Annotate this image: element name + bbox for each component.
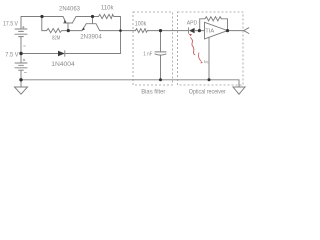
wire diode to riser	[65, 53, 121, 55]
wire 82M branch	[42, 17, 47, 31]
battery polarity marks	[22, 26, 27, 72]
wire 7.5V tap to diode	[21, 53, 58, 55]
wire TIA output	[228, 30, 244, 32]
ground left	[15, 80, 28, 94]
svg-text:APD: APD	[187, 20, 198, 26]
minus B2	[24, 71, 26, 73]
wire bias out to APD	[161, 30, 189, 32]
diode APD	[189, 28, 205, 33]
current arrow Ipd (red)	[198, 53, 203, 64]
svg-text:IPD: IPD	[204, 59, 210, 65]
dashed box Bias filter	[133, 12, 173, 85]
svg-text:Optical receiver: Optical receiver	[189, 90, 226, 96]
svg-text:2N3904: 2N3904	[80, 35, 102, 41]
transistor Q2 2N3904	[82, 17, 100, 31]
plus B2	[23, 59, 25, 61]
wire top rail left	[21, 16, 63, 18]
svg-text:7.5 V: 7.5 V	[5, 53, 18, 59]
wire TIA ground lead	[208, 37, 210, 80]
diode D1 1N4004	[58, 51, 65, 57]
wire riser x120.5	[120, 17, 122, 54]
capacitor C1 1nF	[155, 31, 166, 80]
wire top rail mid	[76, 16, 99, 18]
wire cross to 100k	[121, 30, 136, 32]
minus B1	[23, 45, 25, 47]
dashed box Optical receiver	[178, 12, 244, 85]
transistor Q1 2N4063	[63, 17, 76, 31]
svg-text:1 nF: 1 nF	[143, 51, 153, 57]
battery B1 17.5V plates	[15, 29, 27, 37]
svg-text:TIA: TIA	[205, 29, 214, 35]
plus B1	[22, 26, 24, 28]
svg-text:1N4004: 1N4004	[51, 62, 75, 68]
junction dots	[19, 15, 229, 82]
svg-text:2N4063: 2N4063	[59, 7, 81, 13]
svg-text:82M: 82M	[52, 36, 61, 42]
op-amp U1 TIA	[205, 22, 228, 39]
wire bottom rail	[21, 79, 239, 81]
svg-text:17.5 V: 17.5 V	[3, 21, 18, 27]
resistor R3 feedback	[200, 17, 228, 31]
svg-text:110k: 110k	[101, 5, 114, 11]
resistor 82M	[47, 29, 69, 33]
resistor R1 110k	[99, 14, 121, 18]
svg-text:100k: 100k	[135, 22, 147, 28]
ground right	[233, 80, 245, 94]
battery B2 7.5V plates	[15, 54, 27, 80]
resistor R2 100k	[135, 29, 160, 33]
wire Q2 collector rail	[100, 30, 121, 32]
wire Q2 emitter rail	[68, 30, 82, 32]
light arrow (red) into APD	[189, 34, 195, 55]
svg-text:Bias filter: Bias filter	[141, 90, 165, 96]
wire battery middle lead	[20, 37, 22, 54]
output terminal chevron	[244, 28, 249, 34]
wire battery top lead	[20, 17, 22, 30]
